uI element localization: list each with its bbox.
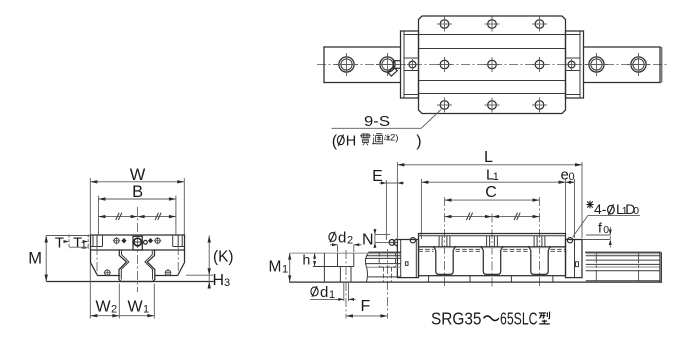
label 4-phi-L1D0	[573, 201, 641, 238]
rail hole 2	[376, 53, 399, 76]
dimension phi-d2	[329, 230, 362, 253]
svg-text:T: T	[55, 235, 64, 252]
right end plate side	[566, 238, 583, 278]
svg-text:): )	[416, 133, 421, 150]
hidden rail top edge inside block	[419, 249, 566, 251]
svg-text:f: f	[598, 219, 602, 235]
rail hole 3	[585, 53, 608, 76]
svg-text:N: N	[362, 231, 374, 248]
rail hole centerlines right rail	[595, 252, 597, 282]
dimension L1	[421, 166, 565, 239]
rail hole 1	[335, 53, 358, 76]
svg-text:H: H	[213, 272, 225, 289]
dimension M1	[269, 253, 292, 282]
hidden rail bolt hole	[379, 252, 395, 282]
grease nipple side	[388, 239, 397, 246]
centerline vertical front view	[137, 207, 139, 292]
svg-text:3: 3	[224, 277, 230, 289]
svg-text:M: M	[28, 250, 42, 268]
hole centerlines through block columns	[444, 197, 446, 287]
left end plate	[401, 31, 419, 98]
svg-text:4-: 4-	[594, 201, 607, 217]
svg-text:1: 1	[143, 304, 149, 316]
svg-text:d: d	[320, 284, 328, 301]
svg-text:65SLC: 65SLC	[500, 309, 538, 329]
top face line	[91, 249, 185, 251]
left end plate side	[397, 238, 418, 278]
rail section piece	[290, 253, 662, 282]
svg-text:SRG35: SRG35	[431, 309, 482, 329]
dimension B	[98, 183, 175, 235]
dimension C	[445, 184, 540, 202]
rail left segment	[324, 47, 401, 83]
right end plate	[566, 31, 584, 98]
dimension W1	[119, 284, 154, 319]
dimension F	[346, 298, 387, 318]
svg-text:H: H	[346, 133, 356, 149]
dimension h	[303, 252, 317, 268]
svg-text:1: 1	[282, 264, 288, 276]
svg-text:C: C	[485, 184, 497, 201]
dimension equal-halves (//)	[98, 213, 175, 220]
mounting surface line	[47, 281, 213, 283]
grease nipple front	[132, 236, 147, 250]
block lip lines left	[91, 235, 103, 247]
svg-text:F: F	[361, 298, 371, 315]
dimension equal-halves side (//)	[445, 213, 540, 220]
dimension f0	[577, 219, 612, 247]
svg-text:d: d	[338, 230, 346, 247]
svg-text:W: W	[95, 299, 111, 316]
svg-text:M: M	[269, 259, 282, 276]
rail right segment	[584, 47, 662, 83]
grease nipple top view	[388, 61, 401, 76]
rail hole centerline ticks under block	[429, 276, 553, 282]
dimension e0	[561, 167, 575, 239]
corner screws front	[104, 269, 172, 276]
block side body	[419, 234, 566, 276]
superscript zhu2	[384, 135, 390, 140]
svg-text:(: (	[332, 133, 338, 150]
side hole centerlines front	[96, 246, 98, 277]
svg-text:2): 2)	[390, 132, 398, 143]
svg-text:h: h	[303, 252, 311, 268]
dimension E	[372, 168, 404, 240]
svg-text:2: 2	[347, 235, 353, 247]
block front outline	[91, 235, 185, 276]
dimension T	[55, 235, 69, 252]
model designation SRG35~65SLC	[431, 309, 550, 329]
dimension phi-d1	[310, 283, 356, 301]
svg-text:L: L	[484, 149, 493, 166]
dimension (K)	[186, 236, 234, 288]
svg-text:9-S: 9-S	[364, 113, 390, 130]
svg-text:W: W	[127, 299, 143, 316]
rail side right of block	[586, 252, 662, 282]
rail side left of block with break	[365, 252, 401, 282]
diamonds	[121, 238, 153, 243]
svg-text:2: 2	[111, 304, 117, 316]
dimension H3	[208, 272, 231, 289]
centerline section hole	[345, 250, 347, 319]
9-S label and leader	[332, 110, 442, 130]
svg-text:(K): (K)	[213, 249, 234, 266]
glyph guan	[360, 133, 371, 145]
glyph tong	[373, 133, 383, 144]
svg-text:0: 0	[603, 224, 609, 236]
svg-text:1: 1	[493, 171, 499, 183]
centerline hidden hole	[386, 249, 388, 319]
phi-H label (φH 贯通 note2)	[332, 132, 422, 150]
rail hole 4	[627, 53, 650, 76]
svg-text:B: B	[132, 183, 143, 201]
top face screw holes	[113, 237, 162, 244]
rail profile front	[119, 250, 155, 282]
block lip lines right	[173, 235, 185, 247]
dimension N	[362, 229, 390, 249]
dimension T1	[69, 235, 89, 252]
dimension W	[90, 166, 184, 235]
glyph xing	[539, 312, 550, 324]
dimension L	[397, 149, 582, 238]
svg-text:W: W	[130, 166, 146, 184]
block body top view	[419, 16, 566, 114]
dimension M	[28, 236, 90, 282]
dimension W2	[90, 263, 119, 319]
centerline horizontal	[317, 64, 668, 66]
